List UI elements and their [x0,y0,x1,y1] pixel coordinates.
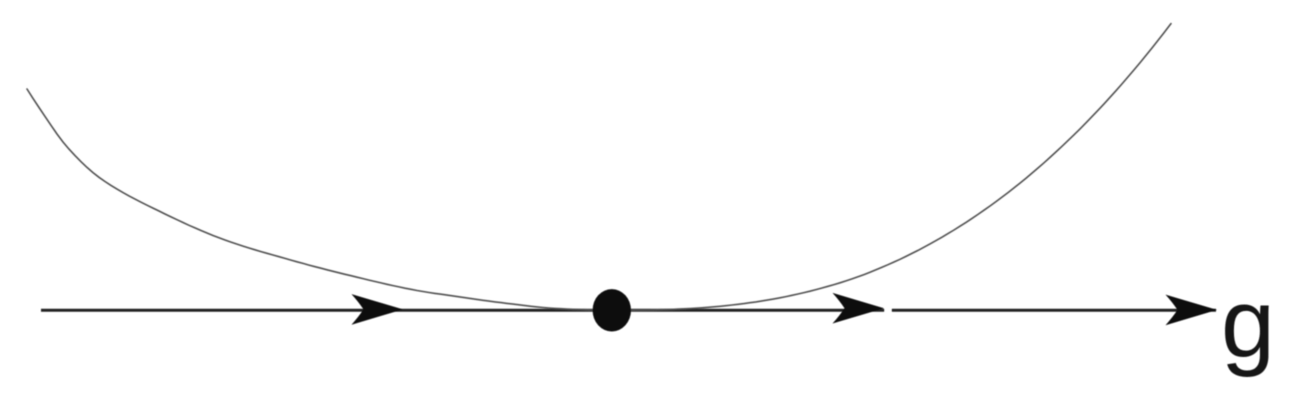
wire: horizontal flow axis line [41,309,1216,312]
arrowhead 1 (left, pointing right) [352,294,404,325]
wire: white gap in axis after middle arrowhead [885,304,892,316]
arrowhead 3 (right end, pointing right) [1166,295,1218,326]
node: fixed point dot [593,289,631,331]
svg-text:g: g [1221,269,1275,378]
curve: graph of g tangent to axis at fixed point [27,24,1171,311]
arrowhead 2 (middle, pointing right) [833,293,885,324]
